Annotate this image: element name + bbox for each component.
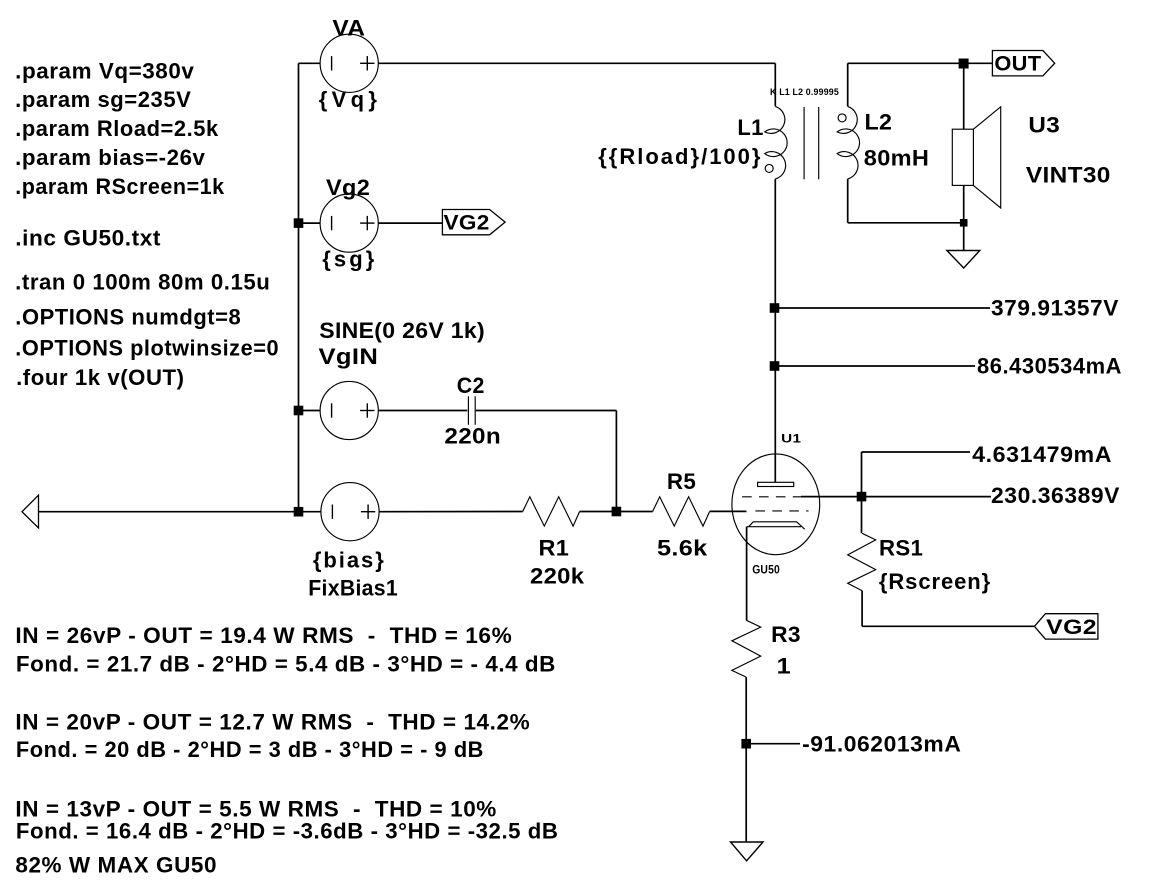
port arrow input left [22, 495, 39, 528]
ground cathode [731, 842, 764, 861]
svg-text:VG2: VG2 [1046, 616, 1097, 639]
svg-text:{{Rload}/100}: {{Rload}/100} [598, 144, 761, 169]
resistor R1 [523, 497, 580, 526]
svg-text:230.36389V: 230.36389V [991, 483, 1120, 508]
speaker U3 body [952, 129, 973, 185]
svg-text:FixBias1: FixBias1 [308, 575, 398, 600]
node junction left rail at bias [294, 507, 304, 517]
wire annotation 86mA [775, 365, 976, 367]
wire Vg2 to flag [378, 222, 442, 224]
svg-text:82% W MAX GU50: 82% W MAX GU50 [15, 852, 217, 877]
wire speaker down [963, 185, 965, 250]
spice directive .OPTIONS and .four [15, 305, 279, 390]
transformer core [804, 107, 819, 179]
svg-text:GU50: GU50 [752, 565, 780, 577]
svg-text:.param sg=235V: .param sg=235V [15, 87, 191, 112]
svg-text:R3: R3 [771, 622, 801, 647]
tube U1 control grid dashed [755, 510, 808, 512]
wire VgIN left stub [299, 410, 321, 412]
net flag OUT [992, 51, 1054, 76]
svg-text:K L1 L2 0.99995: K L1 L2 0.99995 [770, 87, 839, 98]
node junction anode 379V [770, 303, 780, 313]
svg-text:.param bias=-26v: .param bias=-26v [15, 145, 206, 170]
wire C2 right [476, 410, 617, 412]
tube U1 screen grid dashed [742, 496, 801, 498]
node junction anode 86mA [770, 361, 780, 371]
svg-text:220n: 220n [444, 423, 501, 448]
svg-text:4.631479mA: 4.631479mA [972, 442, 1112, 467]
wire R1 to R5 [580, 511, 653, 513]
resistor R3 [732, 620, 761, 677]
svg-text:VINT30: VINT30 [1026, 162, 1111, 187]
svg-text:R5: R5 [667, 469, 696, 494]
voltage source FixBias1 [321, 483, 379, 541]
svg-text:80mH: 80mH [864, 145, 929, 170]
comment text block measurements 20vP [15, 709, 530, 762]
svg-text:.four 1k v(OUT): .four 1k v(OUT) [16, 365, 185, 390]
svg-text:379.91357V: 379.91357V [991, 295, 1119, 320]
svg-text:IN = 20vP - OUT = 12.7 W RMS: IN = 20vP - OUT = 12.7 W RMS - THD = 14.… [15, 709, 530, 734]
resistor R5 [653, 497, 710, 526]
svg-text:{bias}: {bias} [313, 548, 384, 573]
svg-text:.tran 0 100m 80m 0.15u: .tran 0 100m 80m 0.15u [15, 270, 270, 295]
wire anode lead [774, 179, 776, 482]
voltage source Vg2 [320, 194, 378, 252]
wire RS1 to VG2 flag [862, 625, 1034, 627]
voltage source VgIN [320, 381, 378, 439]
svg-text:Fond. = 20 dB - 2°HD = 3 dB -: Fond. = 20 dB - 2°HD = 3 dB - 3°HD = - 9… [16, 737, 484, 762]
svg-text:L1: L1 [737, 115, 763, 140]
svg-text:.OPTIONS plotwinsize=0: .OPTIONS plotwinsize=0 [15, 335, 279, 360]
wire top rail from left rail to VA [299, 62, 321, 64]
wire VgIN to C2 [378, 410, 467, 412]
svg-text:VG2: VG2 [444, 212, 490, 235]
svg-text:Fond. = 16.4 dB - 2°HD = -3.6d: Fond. = 16.4 dB - 2°HD = -3.6dB - 3°HD =… [16, 818, 559, 843]
wire R5 to tube grid [710, 510, 747, 512]
svg-text:.OPTIONS numdgt=8: .OPTIONS numdgt=8 [15, 305, 241, 330]
wire screen down to RS1 [861, 497, 863, 534]
wire bias to R1 [379, 511, 523, 513]
svg-text:.param Vq=380v: .param Vq=380v [15, 58, 194, 83]
svg-text:U1: U1 [781, 434, 802, 446]
speaker U3 horn [973, 107, 1000, 208]
inductor L2 secondary coil [837, 106, 859, 178]
svg-text:{Rscreen}: {Rscreen} [879, 569, 991, 594]
svg-text:R1: R1 [539, 535, 570, 560]
capacitor C2 [468, 396, 475, 425]
svg-text:C2: C2 [457, 373, 485, 398]
svg-text:L2: L2 [865, 110, 893, 135]
node junction speaker ground [960, 219, 968, 227]
svg-text:.param Rload=2.5k: .param Rload=2.5k [15, 116, 219, 141]
wire screen up [861, 452, 863, 497]
svg-text:1: 1 [777, 654, 791, 679]
svg-text:OUT: OUT [994, 53, 1041, 76]
phase dot L2 [838, 114, 846, 122]
spice directive .param block [15, 58, 225, 199]
svg-text:5.6k: 5.6k [657, 535, 708, 560]
wire junction to bias source [299, 511, 322, 513]
wire transformer primary top lead [774, 63, 776, 106]
comment text block measurements 13vP [15, 797, 558, 844]
svg-text:{Vq}: {Vq} [319, 87, 378, 112]
wire L2 top to OUT junction [848, 62, 964, 64]
svg-text:{sg}: {sg} [322, 247, 375, 272]
wire top rail from VA to transformer [378, 62, 775, 64]
svg-text:VgIN: VgIN [319, 344, 379, 369]
wire R3 down [745, 677, 747, 842]
svg-text:RS1: RS1 [879, 535, 923, 560]
svg-text:Fond. = 21.7 dB - 2°HD = 5.4 d: Fond. = 21.7 dB - 2°HD = 5.4 dB - 3°HD =… [16, 651, 556, 676]
node junction left rail at VgIN [294, 406, 304, 416]
tube U1 anode plate [758, 482, 794, 486]
ground speaker [947, 251, 980, 269]
wire Vg2 left stub [299, 222, 321, 224]
svg-text:U3: U3 [1028, 112, 1060, 137]
svg-text:-91.062013mA: -91.062013mA [802, 731, 961, 756]
svg-text:86.430534mA: 86.430534mA [977, 354, 1122, 379]
wire junction to OUT flag [964, 62, 993, 64]
wire L2 top lead [847, 63, 849, 106]
comment text block measurements 26vP [15, 623, 556, 677]
tube U1 cathode [747, 522, 805, 529]
wire left rail vertical [298, 63, 300, 511]
node junction cathode current [741, 739, 751, 749]
svg-text:.param RScreen=1k: .param RScreen=1k [15, 174, 225, 199]
wire cathode lead [746, 527, 748, 621]
svg-text:.inc GU50.txt: .inc GU50.txt [15, 225, 161, 250]
wire down to grid net [615, 411, 617, 512]
net flag VG2 return [1034, 614, 1098, 640]
svg-text:220k: 220k [530, 564, 585, 589]
wire annotation -91mA [746, 743, 800, 745]
svg-text:IN = 26vP - OUT = 19.4 W RMS: IN = 26vP - OUT = 19.4 W RMS - THD = 16% [15, 623, 512, 648]
node junction OUT [959, 59, 969, 69]
wire L2 bottom lead [847, 179, 849, 223]
svg-text:SINE(0 26V 1k): SINE(0 26V 1k) [319, 318, 485, 343]
wire RS1 down [861, 591, 863, 627]
node junction left rail at Vg2 [294, 218, 304, 228]
net flag VG2 output [442, 210, 505, 235]
wire screen grid to right [801, 496, 991, 498]
wire L2 bottom to speaker ground [848, 222, 964, 224]
wire annotation 379V [775, 307, 991, 309]
phase dot L1 [765, 164, 773, 172]
svg-text:VA: VA [332, 16, 365, 41]
node junction grid net [612, 507, 622, 517]
inductor L1 primary coil [765, 106, 787, 178]
node junction screen [857, 492, 867, 502]
resistor RS1 [848, 533, 876, 590]
wire arrow to junction [39, 511, 299, 513]
voltage source VA [320, 34, 378, 92]
svg-text:Vg2: Vg2 [326, 175, 370, 200]
wire OUT down to speaker [963, 63, 965, 129]
wire annotation 4.6mA [862, 451, 971, 453]
tube U1 envelope [732, 454, 820, 555]
